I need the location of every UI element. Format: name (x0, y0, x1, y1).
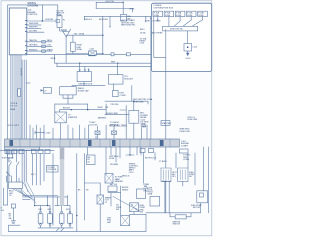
svg-text:NOISE CAP: NOISE CAP (78, 90, 90, 93)
svg-text:B R G Y W T: B R G Y W T (8, 125, 20, 127)
svg-text:TAN/RED: TAN/RED (98, 117, 107, 120)
solenoid R3 (59, 214, 64, 223)
svg-text:SEE FUSE PNL: SEE FUSE PNL (121, 24, 136, 26)
svg-text:W/LB: W/LB (98, 107, 104, 109)
wire TFI bottom pin (113, 84, 115, 90)
starter interrupt box above band (161, 121, 170, 126)
wire y214.3 (130, 212, 146, 215)
wire vert x54.7 (54, 54, 56, 63)
R2 terminals (49, 211, 51, 213)
wire y199.7 (23, 199, 31, 201)
svg-text:T/R: T/R (105, 107, 109, 109)
connector box CC (184, 44, 192, 52)
wires below band mid-left verticals (22, 150, 26, 181)
svg-text:FUSE LINK: FUSE LINK (188, 119, 199, 121)
wire fuse stubs (158, 17, 203, 27)
left bus bottom ground (3, 204, 7, 206)
R3 terminals (61, 211, 63, 213)
wire x54.8 drop (54, 104, 56, 112)
wire x110 stub with arrow (109, 16, 111, 26)
svg-text:INJ2: INJ2 (48, 209, 52, 211)
fuse link box top middle (57, 16, 62, 28)
wires dropping to band mid (30, 125, 147, 139)
svg-text:RED/GRN: RED/GRN (29, 23, 39, 25)
svg-text:GRY/BLK: GRY/BLK (29, 45, 38, 47)
svg-text:CONN: CONN (120, 95, 126, 97)
svg-text:W BK/O RED: W BK/O RED (106, 113, 119, 115)
svg-text:C10: C10 (140, 212, 143, 214)
connector CX with X (89, 51, 97, 55)
wire stubs above band (98, 126, 115, 139)
small box BX2 (150, 197, 160, 207)
svg-text:FUSE LINK: FUSE LINK (180, 131, 191, 133)
svg-text:IAC VLV: IAC VLV (110, 183, 118, 186)
flat box B17 inertia switch (175, 215, 186, 219)
svg-text:DISTRIBUTION BOX: DISTRIBUTION BOX (154, 7, 174, 9)
fuse panel outer box (151, 3, 211, 71)
wire to ground symbol (12, 208, 14, 218)
svg-text:CONTROL: CONTROL (28, 14, 39, 16)
small box B11 (11, 204, 15, 208)
node y109.7 b (87, 109, 88, 110)
node x102.8 y53.8 (102, 53, 103, 54)
wire long y109.7 (60, 109, 106, 111)
svg-text:W/LB: W/LB (51, 58, 57, 60)
connector symbol on y54.3 a (89, 53, 96, 56)
wire x130 below band (126, 147, 134, 155)
wire coil pins (80, 63, 89, 71)
wire x76.8 vertical (76, 154, 78, 232)
box B14 (130, 203, 139, 212)
wire y101.2 right segment (132, 101, 148, 104)
connector symbol on y54.3 b (111, 53, 114, 56)
svg-text:INJ1: INJ1 (39, 209, 43, 211)
wire x132.3 corner down (131, 9, 133, 13)
arrowhead into A1 (41, 89, 44, 91)
band hatch cell d (160, 140, 164, 146)
wire bottom y225.2 (38, 226, 73, 228)
wire from fuse link down (60, 28, 67, 31)
wire y53.8 (66, 53, 103, 55)
svg-text:COMPT: COMPT (181, 146, 189, 148)
node x130 (129, 154, 130, 155)
wire x111 (110, 193, 112, 206)
wire top y8.5 (96, 8, 132, 10)
svg-text:SW: SW (116, 209, 119, 211)
ground symbol left (11, 218, 15, 224)
wire coil bottom to y85.6 (83, 82, 85, 86)
small box B4 (113, 90, 119, 96)
diode symbol on y41.8 (42, 41, 46, 43)
wire bottom y231.2 (9, 228, 147, 232)
wire left bottom connect (9, 225, 21, 231)
wire top y2.3 (96, 1, 123, 3)
R4 terminals (69, 211, 71, 213)
wire right verticals to y212.8 (165, 182, 169, 213)
svg-text:16 GA: 16 GA (140, 31, 146, 34)
wire y104.1 (55, 103, 88, 105)
wire x59.7 from y109.7 down (59, 110, 61, 112)
band hatch cell b (88, 140, 92, 146)
wire drop from top run (41, 5, 43, 21)
fuse cell 2 (164, 11, 174, 16)
wire x116 below band (115, 147, 117, 162)
wire stubs into bottom module (9, 176, 19, 182)
svg-text:BLK/ORG: BLK/ORG (20, 68, 22, 76)
wire x141 below band (140, 147, 142, 155)
wire exit y28.3 (27, 27, 41, 29)
wire EEC relay top pin (133, 101, 135, 110)
svg-text:SWITCH: SWITCH (173, 224, 181, 226)
svg-text:PNK/BLK: PNK/BLK (29, 49, 38, 51)
second row right boxes (140, 149, 145, 153)
wire x146 down (145, 214, 147, 231)
switch symbol c (6, 172, 10, 182)
wire bus extra verticals (22, 60, 26, 150)
solenoid R2 (48, 214, 53, 223)
second row long line (0, 149, 54, 151)
switch symbol a (9, 158, 12, 176)
svg-text:PK/BK LG: PK/BK LG (162, 181, 171, 183)
svg-text:MODULE: MODULE (124, 79, 133, 81)
connector symbol on y54.3 c (126, 53, 130, 56)
ground wire left x3.4 (2, 188, 4, 205)
gray heavy wire (60, 147, 64, 206)
band hatch cell c (112, 140, 116, 146)
inner L corner lines (154, 17, 166, 57)
B16 inner square (200, 193, 204, 197)
fuel pump box B16 (197, 191, 208, 203)
solenoid R1 (38, 214, 43, 223)
EEC power relay box (129, 111, 139, 124)
wire x84.3 corner (83, 16, 85, 20)
svg-text:RED/LG: RED/LG (85, 19, 93, 21)
svg-text:1T BK/O: 1T BK/O (159, 161, 167, 163)
wire x120.7 (120, 186, 122, 216)
bulkhead connector band (5, 139, 180, 147)
wire y85.6 (72, 85, 105, 87)
wire starter down (60, 123, 62, 139)
node x123.2 (123, 2, 124, 3)
TFI module box (108, 75, 123, 84)
wire x111 band stub (110, 147, 112, 155)
ground triangle below CC (186, 53, 190, 57)
node junction (42, 20, 43, 21)
svg-text:CLUSTER: CLUSTER (47, 169, 56, 171)
svg-text:G Y O P: G Y O P (10, 105, 18, 107)
wire exit y25 (27, 24, 41, 26)
legend label box mid (47, 166, 58, 172)
relay dashed box 1 (161, 168, 171, 182)
wires below band mid verticals (33, 154, 53, 226)
svg-text:CONN: CONN (183, 159, 189, 161)
fuse cell 1 (153, 11, 163, 16)
svg-text:C9: C9 (9, 195, 11, 197)
node x76.8 (76, 215, 77, 216)
svg-text:BK/O: BK/O (140, 29, 145, 31)
node y109.7 a (71, 109, 72, 110)
svg-text:START: START (47, 48, 54, 51)
svg-text:B W R G Y T O: B W R G Y T O (2, 158, 14, 160)
ignition switch small box (121, 15, 127, 22)
inline connector small boxes (8, 154, 13, 158)
connector box B9 (105, 174, 113, 184)
svg-text:GRY/YEL: GRY/YEL (106, 1, 116, 3)
wire x106.1 vertical (105, 104, 107, 115)
node x102.8 y35.2 (102, 35, 103, 36)
wire splice down (65, 37, 67, 63)
coil pin arrowheads (79, 70, 89, 72)
connector sym above band b (112, 131, 117, 134)
svg-text:STARTER: STARTER (68, 116, 78, 119)
svg-text:W LB/BK: W LB/BK (110, 164, 119, 166)
wire module pin stubs (11, 55, 21, 139)
connector box B12 (97, 195, 104, 204)
svg-text:IGNITION SW: IGNITION SW (170, 28, 183, 30)
box B15 (121, 216, 130, 226)
svg-text:TAN/YEL: TAN/YEL (29, 39, 38, 42)
svg-text:RED: RED (144, 190, 149, 192)
ignition switch bar (163, 26, 198, 31)
band lower gray row left (5, 147, 40, 150)
svg-text:WHT/PPL: WHT/PPL (29, 27, 39, 29)
wires fanning X crossing (12, 181, 36, 203)
bottom left module box (9, 182, 23, 189)
wire vert x96.2 (95, 2, 97, 8)
wire x123.2 down to switch box (122, 2, 124, 14)
wire exit y41.8 (27, 41, 52, 43)
svg-text:YEL / 16GA: YEL / 16GA (74, 33, 85, 36)
svg-text:18GA: 18GA (148, 193, 153, 196)
wire left bus line 1 (8, 5, 35, 205)
svg-text:FUSE: FUSE (165, 15, 171, 17)
fuse F2 (71, 42, 76, 51)
wire y212.8 bottom right (146, 212, 200, 214)
diagonal wire to fuel pump relay (113, 197, 141, 212)
A/C cutout box (60, 87, 76, 95)
fuse F1 on left bus (18, 89, 21, 96)
wire exit y46.3 (27, 45, 52, 47)
band cells left (10, 139, 170, 147)
svg-text:14 BK: 14 BK (145, 20, 151, 22)
wire x106 below band (105, 147, 107, 174)
wire y101.2 (105, 86, 132, 102)
svg-text:20GA: 20GA (77, 48, 83, 51)
diode symbol on y46.3 (42, 45, 46, 47)
wire x87.3 below band (86, 147, 88, 155)
node on y63.2 (117, 63, 118, 64)
diode symbol on y51.1 (42, 50, 46, 52)
wire x155 below band (154, 153, 156, 161)
svg-text:BATT FEED: BATT FEED (152, 32, 163, 35)
wire x102.8 vertical (102, 16, 104, 54)
wire x203.4 vertical (202, 147, 204, 191)
svg-text:INJ3: INJ3 (66, 209, 70, 211)
svg-text:C210: C210 (129, 172, 134, 174)
module ECU left (9, 8, 27, 55)
R1 terminals (40, 211, 42, 213)
wire relays down (166, 182, 183, 213)
svg-text:FUSE: FUSE (56, 15, 62, 17)
wire x145.8 stub (145, 16, 147, 22)
svg-text:W/BK: W/BK (129, 9, 135, 11)
wire B17 connections (170, 213, 191, 217)
wire stub right at y83 (26, 82, 30, 84)
wire EEC bottom to band (133, 123, 135, 139)
svg-text:FUSE: FUSE (154, 15, 160, 17)
bottom box B13 (108, 186, 117, 192)
wire exits right of module y21 (27, 20, 56, 22)
wire trapezoid merge (174, 20, 203, 27)
wire x208.5 right edge vertical (208, 147, 210, 213)
wire x188 below band (187, 153, 189, 168)
wire y35.2 from splice (66, 34, 103, 36)
svg-text:C120: C120 (140, 43, 145, 45)
wire bar down (187, 31, 189, 44)
wire TFI top pin (117, 63, 119, 74)
wire long y16.3 (84, 15, 151, 17)
wire mid y98.2 (63, 95, 73, 104)
svg-text:W/RED: W/RED (122, 189, 129, 191)
svg-text:18 GA: 18 GA (141, 125, 147, 128)
svg-text:FUSE: FUSE (187, 15, 193, 17)
CC inner dot (187, 46, 189, 48)
arrow box A1 (43, 88, 51, 94)
wire long y54.3 (27, 53, 151, 55)
wire y183 jog (85, 182, 101, 184)
starter relay box (55, 112, 67, 123)
wire top-left horizontal (35, 5, 58, 16)
wire B16 top (202, 190, 204, 192)
border frame (1, 1, 212, 236)
wire long y63.2 (55, 62, 151, 64)
svg-text:DK GRN: DK GRN (29, 30, 37, 32)
svg-text:18GA: 18GA (10, 108, 16, 111)
connector sym above band a (95, 131, 100, 134)
wire box B5 pins (63, 95, 73, 98)
second row connector boxes left (5, 149, 10, 153)
module pin ticks (25, 20, 26, 53)
wires to solenoid boxes (23, 196, 71, 212)
wire exit y51.1 (27, 50, 52, 52)
connector end of y21 (56, 19, 60, 22)
label box below x87.3 (87, 155, 96, 165)
svg-text:CLUTCH: CLUTCH (89, 125, 98, 127)
svg-text:STARTER: STARTER (162, 122, 172, 125)
svg-text:RED: RED (111, 62, 116, 64)
wires below band left stubs (6, 150, 19, 154)
svg-text:SENDER: SENDER (115, 181, 124, 183)
svg-text:104: 104 (1, 210, 4, 212)
wire x137 below band (136, 147, 138, 155)
wire x120 band stub (119, 147, 121, 158)
fuse cell 3 (175, 11, 185, 16)
wire y192.7 (108, 192, 121, 194)
svg-text:FUSE LINK: FUSE LINK (133, 101, 144, 103)
wire B16 bottom (199, 203, 201, 213)
svg-text:DIAGRAM: DIAGRAM (28, 5, 39, 8)
svg-text:BK PK/O LG: BK PK/O LG (145, 157, 157, 159)
wire x176 below band (175, 153, 177, 168)
node on y63.2 b (79, 63, 80, 64)
fuse cell 4 (187, 11, 197, 16)
band hatch cell a (10, 140, 14, 146)
svg-text:SENSOR: SENSOR (110, 125, 119, 127)
solenoid R4 (68, 214, 73, 223)
relay dashed box 2 (178, 168, 188, 182)
wire right long vertical x165.8 (165, 29, 167, 168)
ignition coil box (77, 71, 91, 81)
svg-text:MOTOR: MOTOR (193, 207, 201, 209)
svg-text:PPL/YEL: PPL/YEL (111, 104, 120, 106)
wire x195 below band (194, 153, 196, 185)
wire long y66.7 (57, 66, 151, 68)
svg-text:DK BL: DK BL (109, 158, 114, 160)
svg-text:BLK/YEL: BLK/YEL (46, 19, 55, 21)
wire x84.5 vertical (84, 154, 86, 221)
wire x87.7 drop (87, 104, 89, 110)
svg-text:C8: C8 (87, 161, 89, 163)
label leader C100 (35, 131, 44, 134)
fuse cell 5 (198, 11, 208, 16)
wire x143.4 below band (142, 153, 144, 184)
node fuse1 stub (157, 19, 158, 20)
wire fuse F2 vertical (72, 35, 74, 54)
switch symbol b (17, 154, 20, 176)
wire y114.7 into EEC relay (105, 114, 129, 116)
relay box BX1 (137, 189, 146, 199)
svg-text:FUSE: FUSE (176, 15, 182, 17)
svg-text:FL: FL (63, 20, 65, 22)
svg-text:BLK/ORG: BLK/ORG (99, 19, 108, 21)
B14 dots (131, 204, 132, 205)
svg-text:FUSE: FUSE (199, 15, 205, 17)
svg-text:LG RD BK: LG RD BK (152, 20, 161, 22)
wire B12 verticals (99, 183, 101, 231)
wire x126.2 branch vertical (120, 106, 126, 139)
node solenoid feed a (34, 205, 35, 206)
starter box X mark (55, 112, 67, 123)
wire exit y32.2 (27, 31, 44, 33)
svg-text:TACH: TACH (47, 39, 53, 42)
node EEC top (133, 101, 134, 102)
wire vert x57 (56, 63, 58, 66)
gray wire top dark (60, 147, 64, 159)
splice S101 diagonals (62, 29, 71, 37)
svg-text:RED/LG: RED/LG (122, 176, 130, 178)
svg-text:C5: C5 (105, 202, 107, 204)
wire right drop x150.9 (150, 18, 151, 19)
svg-text:BLK/LB: BLK/LB (63, 108, 70, 110)
svg-text:IGNITION COIL: IGNITION COIL (78, 84, 93, 86)
svg-text:C2: C2 (9, 161, 11, 163)
